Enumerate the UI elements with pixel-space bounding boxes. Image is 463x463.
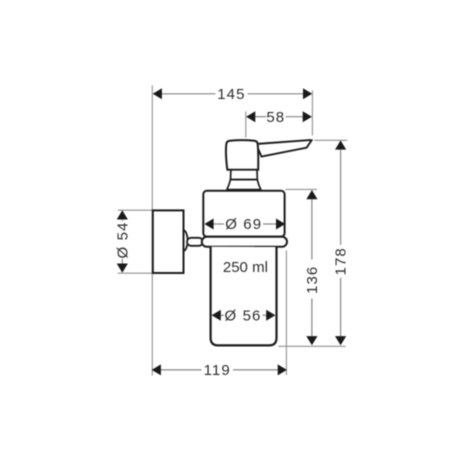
svg-text:136: 136 [304, 266, 321, 294]
svg-text:58: 58 [266, 109, 285, 126]
svg-text:Ø 56: Ø 56 [225, 307, 262, 324]
svg-text:Ø 54: Ø 54 [114, 222, 131, 259]
svg-text:119: 119 [204, 362, 231, 379]
svg-text:250 ml: 250 ml [223, 259, 268, 276]
svg-text:Ø 69: Ø 69 [225, 216, 262, 233]
svg-text:145: 145 [217, 86, 245, 103]
svg-text:178: 178 [333, 247, 350, 275]
